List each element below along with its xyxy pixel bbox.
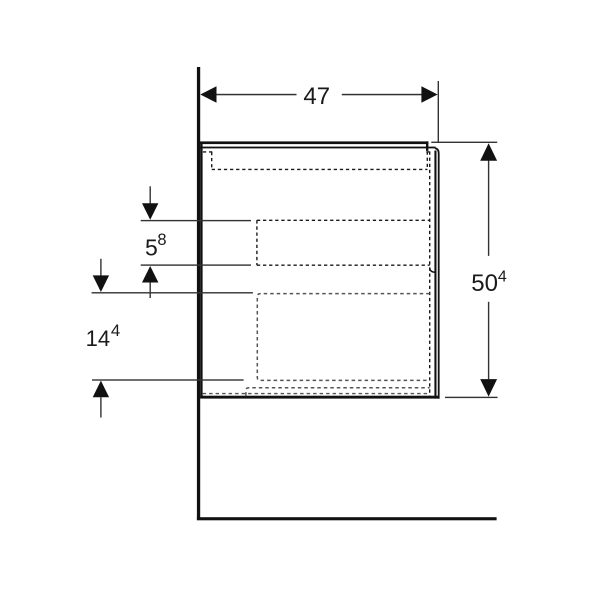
svg-text:14: 14 [86, 326, 110, 351]
dim 5.8 down arrow [142, 203, 158, 220]
svg-text:4: 4 [498, 269, 507, 286]
interior dash front vertical [429, 152, 431, 397]
dim 14.4 down arrow tail [100, 259, 101, 276]
dim 50 arrow down [480, 379, 497, 397]
door inner edge [434, 151, 436, 399]
dim 47 line right [342, 94, 422, 96]
wall [197, 67, 200, 520]
interior dash left step vertical [211, 152, 213, 170]
bottom recess dashed outline [246, 388, 430, 396]
dim 14.4 line top [92, 292, 253, 293]
interior dash right stub vertical [426, 152, 428, 171]
dim 14.4 up arrow [93, 381, 109, 398]
interior dash long horizontal [212, 168, 428, 170]
dim 14.4 line bottom [92, 379, 244, 380]
dim 5.8 line top [141, 220, 251, 221]
drawer front groove curve [430, 268, 436, 273]
svg-text:47: 47 [303, 83, 330, 110]
cabinet top panel line [200, 141, 428, 144]
interior dashed outline [203, 152, 431, 397]
svg-text:50: 50 [471, 270, 498, 297]
dim 14.4 up arrow tail [100, 397, 101, 417]
dim 5.8 up arrow [142, 266, 158, 283]
dim 50 ext top [431, 142, 497, 143]
dim 50 line upper [488, 161, 489, 256]
door outer edge [435, 148, 439, 399]
dim 50 ext bottom [445, 397, 498, 398]
svg-text:4: 4 [111, 321, 120, 340]
cabinet bottom [200, 396, 439, 399]
dim 5.8 line bottom [141, 264, 251, 265]
dim 47 arrow left [200, 86, 216, 103]
lower drawer dashed box [257, 294, 429, 381]
cabinet left edge [200, 144, 202, 399]
dim 50 arrow up [480, 143, 497, 161]
interior dash top-left horizontal [203, 151, 212, 153]
dim 47 line left [216, 94, 297, 96]
floor [197, 517, 497, 520]
cabinet top-right stub [426, 141, 428, 151]
dim 5.8 up arrow tail [150, 283, 151, 299]
cabinet top second line [200, 147, 436, 149]
svg-text:8: 8 [157, 231, 166, 249]
dim 14.4 down arrow [93, 275, 109, 292]
dim 50 line lower [488, 302, 489, 380]
interior dash top-right horizontal [426, 151, 430, 153]
dim 47 ext line [438, 81, 439, 143]
svg-text:5: 5 [145, 235, 158, 261]
upper drawer dashed box [257, 220, 430, 265]
bottom recess dashed line2 [203, 393, 430, 395]
dim 5.8 down arrow tail [150, 186, 151, 204]
dim 47 arrow right [421, 86, 437, 103]
